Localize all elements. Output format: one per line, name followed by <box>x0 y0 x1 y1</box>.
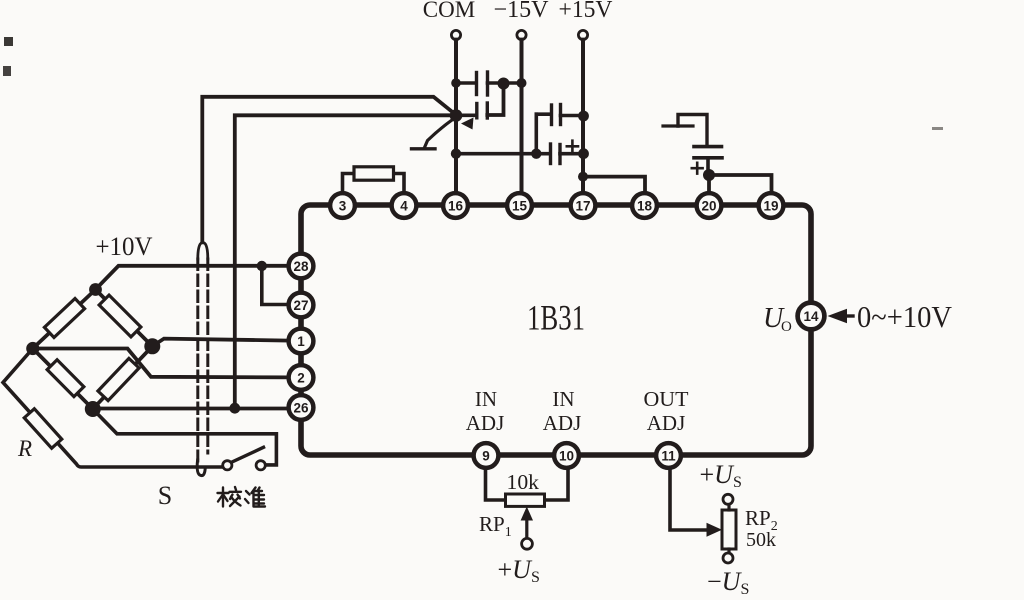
wire bridge left node to pin 2 <box>33 349 289 378</box>
wire +15V vertical to pin 17 <box>581 40 585 193</box>
svg-text:11: 11 <box>661 449 676 464</box>
junction dot on +15V line lower <box>578 148 589 159</box>
svg-text:1: 1 <box>297 334 305 349</box>
pin 1 <box>289 329 314 354</box>
svg-text:+US: +US <box>700 460 742 491</box>
RP1 wiper terminal <box>522 538 533 549</box>
svg-text:RP1: RP1 <box>479 512 512 540</box>
wire bridge arm bottom-right <box>93 346 153 409</box>
pin 10 <box>554 443 579 468</box>
node bridge top <box>89 283 102 296</box>
junction dot pin27 tap <box>257 261 267 271</box>
capacitor C2 lower, guard node to -15V <box>458 114 477 118</box>
wire guard 2 inner <box>235 115 454 408</box>
capacitor C3 upper, to +15V <box>536 112 551 116</box>
wire C3 riser <box>534 114 538 154</box>
pin 28 <box>289 254 314 279</box>
junction dot on -15V line <box>517 78 527 88</box>
svg-text:COM: COM <box>423 0 475 22</box>
wire bridge right node to pin 1 <box>152 339 288 347</box>
pin 9 <box>474 443 499 468</box>
wire bridge bottom node to pin 26 <box>93 407 289 411</box>
resistor RG between pins 3 and 4 <box>354 167 394 180</box>
svg-text:IN: IN <box>475 387 497 411</box>
svg-text:OUT: OUT <box>644 387 689 411</box>
node guard junction on COM line <box>450 109 463 122</box>
svg-text:50k: 50k <box>746 529 776 551</box>
svg-text:27: 27 <box>293 298 308 313</box>
node COM terminal <box>451 30 460 39</box>
svg-text:15: 15 <box>512 199 528 214</box>
capacitor C4 polarized, COM to +15V <box>456 152 550 156</box>
svg-text:ADJ: ADJ <box>647 411 686 435</box>
scan speck <box>4 37 13 46</box>
svg-text:28: 28 <box>293 259 309 274</box>
pin 4 <box>392 193 417 218</box>
shield dashed right <box>206 259 209 453</box>
resistor bridge R-b <box>99 295 141 337</box>
wire resistor RG right lead <box>394 174 405 193</box>
wire +15V to pin 18 <box>583 177 645 193</box>
wire node to pin 20 <box>707 175 711 193</box>
resistor bridge R-c <box>47 360 84 397</box>
pin 16 <box>443 193 468 218</box>
wire left node to R <box>3 349 222 468</box>
svg-text:ADJ: ADJ <box>543 411 582 435</box>
junction dot pin18 branch <box>578 172 588 182</box>
resistor bridge R-d <box>98 358 139 400</box>
svg-text:ADJ: ADJ <box>466 411 505 435</box>
node bridge bottom <box>85 401 101 417</box>
capacitor C1 upper, COM to -15V <box>456 81 476 85</box>
wire C5 to node <box>706 158 710 175</box>
svg-text:17: 17 <box>575 199 590 214</box>
potentiometer RP2 body <box>722 510 736 549</box>
plus sign of C5 <box>692 163 703 174</box>
wire COM vertical to pin 16 <box>454 40 458 193</box>
shield dashed left <box>196 259 199 461</box>
svg-text:+US: +US <box>498 555 540 586</box>
potentiometer RP1 body <box>506 494 545 506</box>
svg-text:−US: −US <box>707 567 749 598</box>
svg-text:26: 26 <box>293 401 309 416</box>
pin 20 <box>697 193 722 218</box>
plus sign of C4 <box>567 141 578 152</box>
wire bridge arm top-right <box>96 290 153 347</box>
pin 19 <box>759 193 784 218</box>
junction dot C4 left riser <box>531 149 541 159</box>
RP1 wiper arrow <box>525 519 528 539</box>
svg-text:+10V: +10V <box>96 232 153 261</box>
junction dot C1 left <box>451 78 461 88</box>
pin 18 <box>632 193 657 218</box>
svg-text:16: 16 <box>448 199 464 214</box>
shield bottom hook <box>197 460 205 476</box>
svg-text:O: O <box>781 319 792 335</box>
svg-text:10: 10 <box>559 449 574 464</box>
pin 15 <box>507 193 532 218</box>
capacitor C5 plates <box>694 145 722 149</box>
pin 3 <box>330 193 355 218</box>
guard reference bar <box>412 147 436 150</box>
wire pin 11 to RP2 <box>670 468 707 530</box>
wire bottom node to switch <box>93 409 277 465</box>
svg-text:14: 14 <box>803 309 819 324</box>
node +15V terminal <box>578 30 587 39</box>
op-amp U1 1B31 IC body <box>301 205 811 455</box>
svg-text:2: 2 <box>297 371 305 386</box>
pin 11 <box>656 443 681 468</box>
label calibration 校准 <box>218 487 266 507</box>
svg-text:9: 9 <box>482 449 490 464</box>
pin 26 <box>289 395 314 420</box>
junction dot guard2 on pin26 wire <box>229 403 240 414</box>
switch lever <box>233 447 264 462</box>
resistor bridge R-a <box>44 299 84 338</box>
svg-text:−15V: −15V <box>494 0 550 23</box>
wire -15V vertical to pin 15 <box>520 40 524 193</box>
pin 2 <box>289 365 314 390</box>
node above pin 20 <box>703 169 715 181</box>
svg-text:R: R <box>17 436 32 461</box>
wire node to pin 19 <box>709 175 772 193</box>
wire RP2 bottom terminal <box>727 549 730 553</box>
resistor R <box>24 409 62 449</box>
junction dot on +15V line upper <box>578 111 589 122</box>
junction dot on COM line <box>451 149 461 159</box>
svg-text:4: 4 <box>400 199 408 214</box>
svg-text:0~+10V: 0~+10V <box>857 299 953 334</box>
svg-text:1B31: 1B31 <box>527 298 585 338</box>
pin 17 <box>571 193 596 218</box>
switch contact left <box>223 461 232 470</box>
switch contact right <box>256 461 265 470</box>
pin 14 <box>798 303 825 330</box>
shield arch top <box>198 243 208 260</box>
arrowhead output <box>828 309 848 323</box>
open bar terminal <box>663 124 693 127</box>
node bridge right <box>144 338 160 354</box>
guard reference curve <box>425 120 453 148</box>
svg-text:10k: 10k <box>507 470 540 494</box>
node -15V terminal <box>517 30 526 39</box>
wire pin 10 to RP1 right <box>545 468 569 500</box>
wire guard 1 outer <box>202 97 455 243</box>
svg-text:20: 20 <box>701 199 716 214</box>
wire pin 9 to RP1 left <box>486 468 506 500</box>
svg-text:19: 19 <box>763 199 778 214</box>
svg-text:IN: IN <box>552 387 574 411</box>
svg-text:S: S <box>158 481 172 510</box>
wire L-shape to capacitor C5 <box>678 115 707 147</box>
arrowhead pointing at guard node <box>461 118 474 130</box>
svg-text:3: 3 <box>339 199 347 214</box>
svg-text:18: 18 <box>637 199 653 214</box>
wire +10V bridge top to pin 28 <box>96 266 289 290</box>
wire RP2 top terminal <box>727 505 730 511</box>
pin 27 <box>289 293 314 318</box>
wire bridge arm top-left <box>33 290 96 349</box>
svg-text:+15V: +15V <box>559 0 614 23</box>
wire resistor RG left lead <box>343 174 355 193</box>
wire bridge arm bottom-left <box>33 349 93 410</box>
wire to pin 27 <box>262 266 289 305</box>
node bridge left <box>26 342 39 355</box>
junction dot C1/C2 right <box>498 78 510 90</box>
